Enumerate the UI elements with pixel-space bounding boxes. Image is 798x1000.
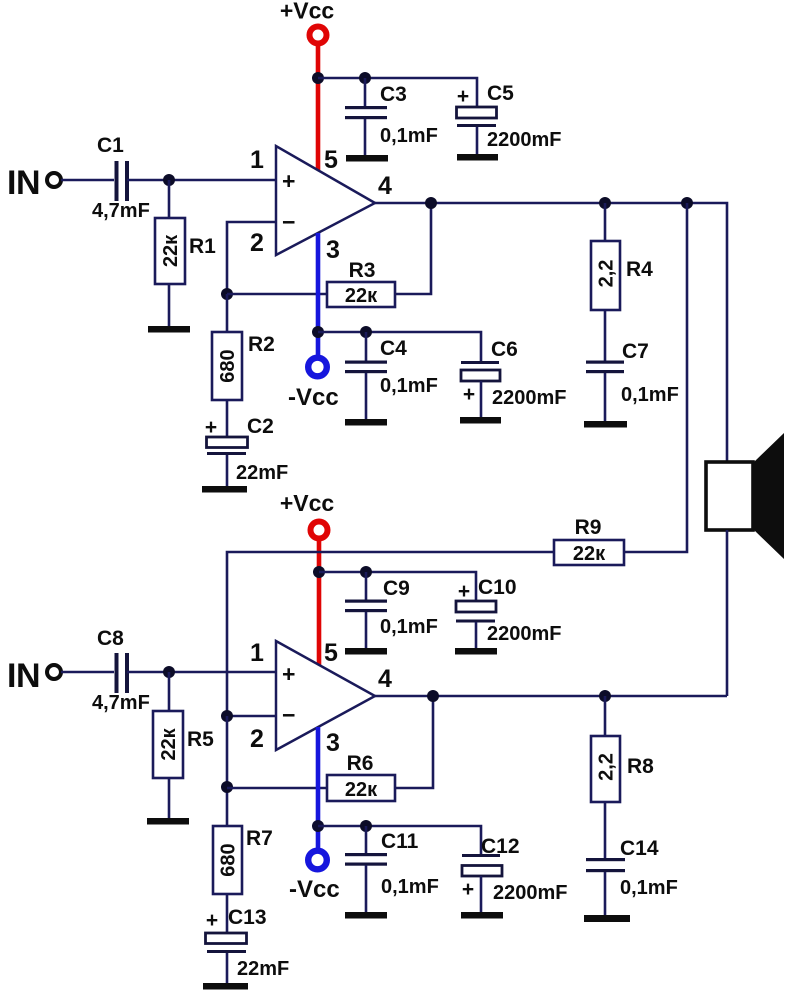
resistor R2 (212, 294, 275, 437)
svg-text:2200mF: 2200mF (492, 387, 567, 409)
svg-text:5: 5 (324, 146, 338, 174)
svg-text:-Vcc: -Vcc (288, 384, 339, 411)
svg-text:+: + (282, 661, 295, 687)
wire feedback node to R6 (227, 787, 327, 790)
resistor R9 (554, 516, 624, 565)
svg-text:2200mF: 2200mF (487, 623, 562, 645)
wire IN to C8 (61, 671, 114, 674)
svg-text:22к: 22к (345, 779, 378, 801)
node junction feedback lower ch2 (221, 781, 233, 793)
capacitor C11 (345, 826, 439, 912)
svg-text:R9: R9 (575, 516, 602, 539)
svg-text:+: + (463, 383, 475, 406)
wire C8 to pin 1 ch2 (127, 671, 276, 674)
wire speaker bottom to ch2 output (726, 530, 729, 696)
svg-text:0,1mF: 0,1mF (381, 876, 439, 898)
svg-text:0,1mF: 0,1mF (380, 375, 438, 397)
capacitor C2 (205, 415, 288, 486)
svg-text:+: + (206, 909, 218, 932)
svg-text:0,1mF: 0,1mF (620, 877, 678, 899)
pin 3 label U2 (326, 729, 340, 757)
node junction +Vcc rail ch2 (313, 566, 325, 578)
svg-text:C5: C5 (487, 82, 514, 105)
ground C12 (461, 912, 503, 919)
node junction feedback ch1 (221, 288, 233, 300)
op-amp U1 (276, 146, 375, 255)
svg-text:R7: R7 (246, 827, 273, 850)
svg-text:IN: IN (7, 657, 40, 695)
terminal -Vcc T3 (308, 358, 327, 377)
svg-text:C11: C11 (381, 830, 419, 853)
svg-text:C13: C13 (228, 906, 267, 929)
ground C11 (345, 912, 387, 919)
resistor R7 (213, 826, 273, 933)
svg-text:4: 4 (378, 172, 392, 200)
svg-text:4: 4 (378, 665, 392, 693)
svg-text:R1: R1 (189, 235, 216, 258)
svg-text:−: − (282, 209, 295, 235)
svg-text:R2: R2 (248, 333, 275, 356)
terminal -Vcc T6 (308, 851, 327, 870)
svg-text:R6: R6 (347, 752, 374, 775)
wire -Vcc rail horizontal to C4/C6 (318, 332, 481, 361)
svg-text:2200mF: 2200mF (487, 129, 562, 151)
svg-text:+: + (462, 878, 474, 901)
svg-text:C8: C8 (97, 627, 124, 650)
ground C7 (584, 421, 627, 428)
node junction input ch2 (163, 666, 175, 678)
terminal +Vcc T4 (311, 522, 328, 539)
svg-text:1: 1 (250, 146, 264, 174)
node IN label (channel 1) (7, 164, 40, 202)
svg-text:C6: C6 (491, 338, 518, 361)
svg-text:C1: C1 (97, 134, 124, 157)
capacitor C13 (206, 906, 290, 983)
pin 3 label U1 (326, 236, 340, 264)
ground C4 (345, 419, 387, 426)
op-amp U2 (276, 641, 375, 750)
svg-text:2200mF: 2200mF (493, 882, 568, 904)
pin 2 label U1 (250, 229, 264, 257)
capacitor C5 (457, 82, 562, 154)
svg-text:4,7mF: 4,7mF (92, 200, 150, 222)
pin 4 label U2 (378, 665, 392, 693)
speaker LS1 (706, 433, 784, 559)
ground C9 (345, 648, 387, 655)
ground C3 (346, 155, 388, 162)
svg-text:+: + (457, 85, 469, 108)
ground R1 (148, 326, 190, 333)
svg-text:+Vcc: +Vcc (280, 490, 335, 516)
wire R9 left leg to ch2 feedback (227, 552, 554, 716)
svg-text:1: 1 (250, 639, 264, 667)
resistor R4 (591, 203, 653, 361)
svg-text:−: − (282, 702, 295, 728)
wire -Vcc rail horizontal to C11/C12 (318, 826, 481, 854)
svg-text:+: + (205, 416, 217, 439)
ground C14 (584, 915, 630, 922)
svg-text:0,1mF: 0,1mF (380, 125, 438, 147)
svg-text:680: 680 (217, 349, 239, 382)
node +Vcc label (channel 2) (280, 490, 335, 516)
wire output rail ch2 (375, 695, 727, 698)
svg-text:22к: 22к (345, 285, 378, 307)
svg-text:+Vcc: +Vcc (280, 0, 335, 24)
wire output rail ch1 (375, 203, 727, 462)
capacitor C6 (461, 338, 567, 417)
ground C6 (460, 417, 501, 424)
ground R5 (147, 818, 189, 825)
wire pin 2 to feedback node (227, 222, 276, 294)
pin 4 label U1 (378, 172, 392, 200)
svg-text:22к: 22к (158, 727, 180, 760)
capacitor C10 (456, 576, 562, 648)
node junction -Vcc rail ch1 (312, 326, 324, 338)
terminal +Vcc T1 (310, 27, 327, 44)
node -Vcc label ch1 (288, 384, 339, 411)
capacitor C4 (345, 332, 438, 419)
wire +Vcc rail horizontal to C9/C10 (319, 572, 476, 601)
svg-text:C2: C2 (247, 415, 274, 438)
svg-text:4,7mF: 4,7mF (92, 692, 150, 714)
svg-text:C12: C12 (481, 835, 520, 858)
wire +Vcc red vertical to pin 5 (316, 46, 321, 170)
svg-text:0,1mF: 0,1mF (621, 384, 679, 406)
svg-text:22к: 22к (160, 234, 182, 267)
wire R3 to output (395, 203, 431, 294)
wire IN to C1 (61, 179, 114, 182)
resistor R8 (591, 696, 654, 858)
node -Vcc label ch2 (289, 876, 340, 903)
node junction output/R9 (681, 197, 693, 209)
svg-text:680: 680 (218, 843, 240, 876)
node junction output/R4 (599, 197, 611, 209)
ground C13 (203, 983, 248, 990)
wire pin 3 blue vertical (316, 233, 321, 356)
wire feedback node to R3 (227, 293, 327, 296)
ground C10 (455, 648, 497, 655)
svg-text:+: + (458, 580, 470, 603)
svg-text:3: 3 (326, 729, 340, 757)
svg-text:0,1mF: 0,1mF (380, 616, 438, 638)
wire +Vcc rail horizontal to C3/C5 (318, 78, 477, 107)
resistor R5 (153, 672, 214, 818)
node junction input (163, 174, 175, 186)
resistor R6 (327, 752, 395, 801)
svg-text:R5: R5 (187, 728, 214, 751)
node junction +Vcc rail (312, 72, 324, 84)
svg-text:22к: 22к (573, 543, 606, 565)
pin 2 label U2 (250, 725, 264, 753)
svg-text:+: + (282, 168, 295, 194)
resistor R1 (155, 180, 216, 326)
capacitor C9 (345, 572, 438, 648)
node junction C9 top (360, 566, 372, 578)
svg-text:R3: R3 (349, 259, 376, 282)
wire pin 2 ch2 to feedback node (227, 715, 276, 718)
wire feedback vertical ch2 (226, 716, 229, 826)
capacitor C8 (92, 627, 150, 714)
pin 1 label U2 (250, 639, 264, 667)
node junction C3 top (359, 72, 371, 84)
node junction output/R6 ch2 (427, 690, 439, 702)
svg-text:R8: R8 (627, 755, 654, 778)
pin 5 label U1 (324, 146, 338, 174)
node junction output/R8 ch2 (599, 690, 611, 702)
capacitor C14 (586, 837, 678, 915)
capacitor C12 (462, 835, 568, 912)
svg-text:2: 2 (250, 725, 264, 753)
svg-text:2,2: 2,2 (596, 753, 618, 781)
node IN label (channel 2) (7, 657, 40, 695)
svg-text:22mF: 22mF (236, 462, 288, 484)
ground C2 (202, 486, 247, 493)
capacitor C7 (586, 340, 679, 421)
wire C1 to pin 1 (127, 179, 276, 182)
svg-text:C7: C7 (622, 340, 649, 363)
svg-text:2: 2 (250, 229, 264, 257)
ground C5 (457, 154, 498, 161)
pin 1 label U1 (250, 146, 264, 174)
resistor R3 (327, 259, 395, 307)
svg-text:IN: IN (7, 164, 40, 202)
terminal IN T2 (47, 173, 61, 187)
terminal IN T5 (47, 665, 61, 679)
wire R6 to output ch2 (395, 696, 433, 788)
svg-text:C4: C4 (380, 337, 407, 360)
svg-text:-Vcc: -Vcc (289, 876, 340, 903)
svg-text:C10: C10 (478, 576, 517, 599)
capacitor C3 (345, 78, 438, 155)
node junction C4 top (360, 326, 372, 338)
svg-text:R4: R4 (626, 258, 653, 281)
svg-text:22mF: 22mF (237, 958, 289, 980)
wire R9 right leg (624, 203, 687, 552)
capacitor C1 (92, 134, 150, 222)
wire pin 3 blue vertical ch2 (316, 727, 321, 849)
node junction -Vcc rail ch2 (312, 820, 324, 832)
svg-text:C14: C14 (620, 837, 659, 860)
node junction output/R3 (425, 197, 437, 209)
svg-text:C9: C9 (383, 577, 410, 600)
svg-text:5: 5 (324, 639, 338, 667)
wire +Vcc red vertical to pin 5 ch2 (317, 541, 322, 666)
svg-text:3: 3 (326, 236, 340, 264)
node junction C11 top (360, 820, 372, 832)
node junction feedback upper ch2 (221, 710, 233, 722)
pin 5 label U2 (324, 639, 338, 667)
svg-text:2,2: 2,2 (596, 260, 618, 288)
node +Vcc label (channel 1) (280, 0, 335, 24)
svg-text:C3: C3 (380, 83, 407, 106)
